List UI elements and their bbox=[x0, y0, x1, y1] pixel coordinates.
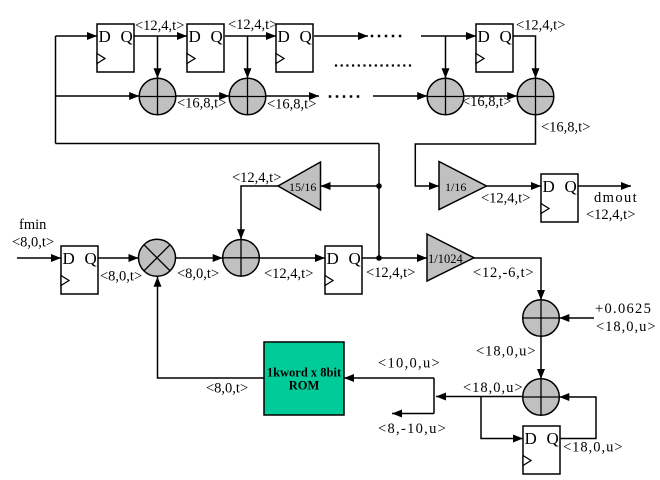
svg-text:1kword x 8bit: 1kword x 8bit bbox=[267, 366, 342, 380]
svg-text:D: D bbox=[543, 177, 555, 196]
svg-text:<8,0,t>: <8,0,t> bbox=[206, 381, 248, 397]
svg-text:<16,8,t>: <16,8,t> bbox=[541, 120, 590, 136]
svg-text:<12,4,t>: <12,4,t> bbox=[481, 191, 530, 207]
svg-text:D: D bbox=[189, 27, 201, 46]
svg-text:<12,4,t>: <12,4,t> bbox=[264, 266, 313, 282]
svg-text:Q: Q bbox=[547, 429, 559, 448]
svg-text:<18,0,u>: <18,0,u> bbox=[476, 344, 537, 360]
svg-text:Q: Q bbox=[211, 27, 223, 46]
svg-text:D: D bbox=[478, 27, 490, 46]
svg-text:1/16: 1/16 bbox=[445, 180, 466, 194]
svg-text:fmin: fmin bbox=[19, 217, 47, 233]
svg-text:<8,0,t>: <8,0,t> bbox=[100, 269, 142, 285]
svg-text:15/16: 15/16 bbox=[289, 180, 316, 194]
svg-text:<16,8,t>: <16,8,t> bbox=[267, 97, 316, 113]
svg-text:<18,0,u>: <18,0,u> bbox=[463, 380, 524, 396]
svg-text:<12,4,t>: <12,4,t> bbox=[232, 170, 281, 186]
svg-text:<8,-10,u>: <8,-10,u> bbox=[378, 421, 447, 437]
svg-text:<12,4,t>: <12,4,t> bbox=[228, 17, 277, 33]
svg-text:Q: Q bbox=[121, 27, 133, 46]
svg-text:<12,4,t>: <12,4,t> bbox=[366, 265, 415, 281]
svg-text:<8,0,t>: <8,0,t> bbox=[177, 266, 219, 282]
svg-text:1/1024: 1/1024 bbox=[428, 252, 463, 266]
svg-text:Q: Q bbox=[565, 177, 577, 196]
svg-text:<18,0,u>: <18,0,u> bbox=[596, 319, 657, 335]
svg-text:D: D bbox=[63, 249, 75, 268]
svg-text:+0.0625: +0.0625 bbox=[595, 301, 652, 317]
svg-text:<18,0,u>: <18,0,u> bbox=[563, 440, 624, 456]
svg-text:D: D bbox=[278, 27, 290, 46]
svg-text:Q: Q bbox=[349, 249, 361, 268]
svg-text:<8,0,t>: <8,0,t> bbox=[12, 235, 54, 251]
svg-text:<12,4,t>: <12,4,t> bbox=[516, 18, 565, 34]
svg-text:ROM: ROM bbox=[289, 379, 320, 393]
svg-text:<10,0,u>: <10,0,u> bbox=[378, 356, 441, 372]
svg-text:Q: Q bbox=[500, 27, 512, 46]
svg-text:Q: Q bbox=[300, 27, 312, 46]
svg-text:D: D bbox=[99, 27, 111, 46]
svg-text:Q: Q bbox=[85, 249, 97, 268]
svg-text:D: D bbox=[327, 249, 339, 268]
svg-text:<12,4,t>: <12,4,t> bbox=[586, 207, 635, 223]
svg-text:<16,8,t>: <16,8,t> bbox=[462, 94, 511, 110]
svg-text:<12,4,t>: <12,4,t> bbox=[135, 18, 184, 34]
svg-text:dmout: dmout bbox=[594, 190, 638, 206]
svg-text:D: D bbox=[525, 429, 537, 448]
svg-text:<12,-6,t>: <12,-6,t> bbox=[473, 265, 534, 281]
svg-text:<16,8,t>: <16,8,t> bbox=[177, 96, 226, 112]
